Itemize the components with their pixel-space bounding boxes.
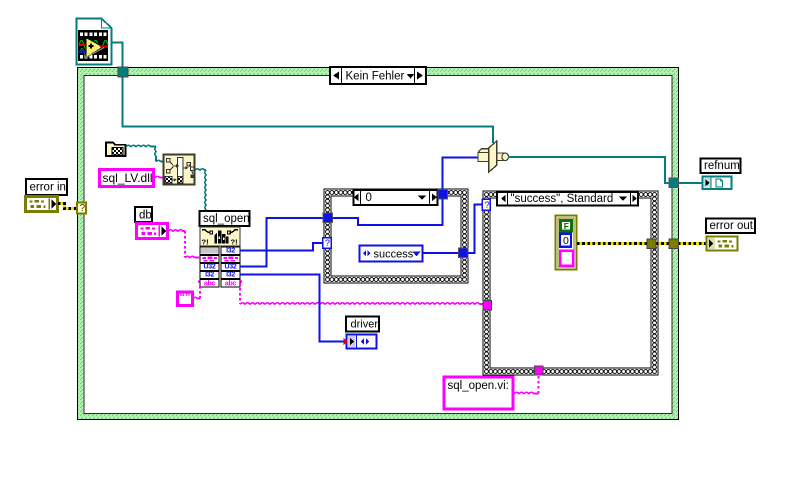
label "driver"	[346, 317, 379, 332]
Call Library Function node "sql_open" header	[200, 227, 240, 247]
control: error in cluster (olive)	[26, 197, 58, 212]
svg-text:?: ?	[80, 203, 86, 214]
case selector label "success", Standard	[497, 192, 638, 206]
svg-text:error out: error out	[710, 220, 754, 232]
svg-text:?!: ?!	[231, 238, 238, 247]
terminal: case 1 selector [?]	[323, 238, 332, 250]
wire: source string (pink) CLN abc out to case 2 tunnel	[240, 283, 483, 304]
svg-text:0: 0	[366, 192, 372, 204]
svg-text:0: 0	[563, 235, 569, 247]
svg-text:db: db	[139, 210, 152, 222]
case structure 2 ("success", Standard), ring-pattern border	[483, 191, 658, 375]
string constant "sql_LV.dll"	[100, 170, 154, 187]
svg-text:U32: U32	[204, 264, 216, 271]
tunnel: blue top-right tunnel of case 1	[438, 190, 448, 200]
coercion mark (red) on driver input	[344, 338, 349, 345]
tunnel: teal refnum tunnel on outer right border	[669, 178, 679, 188]
wire: path (teal wavy) Build Path down to sql_open CLN	[195, 169, 206, 170]
wire: success ring to case1 right tunnel	[423, 252, 459, 254]
tunnel: olive tunnel on outer border	[669, 239, 679, 249]
tunnel: blue right tunnel of case 1	[459, 248, 469, 258]
wire: empty string to CLN abc left	[193, 283, 200, 299]
wire: I32 return value to case 1 selector	[240, 243, 322, 251]
string constant "sql_open.vi:"	[444, 377, 513, 409]
tunnel: pink tunnel on case 2 left border	[483, 301, 492, 311]
indicator: error out (olive cluster)	[707, 237, 738, 251]
CLN terminal rows	[199, 247, 242, 288]
wire: error in to case selector ? (yellow/black dashed)	[58, 204, 78, 209]
case structure 1 (numeric, "0"), ring-pattern border	[324, 189, 468, 283]
function: Type Cast (funnel)	[478, 141, 509, 172]
wire: U32 out to case 1 left tunnel	[240, 218, 323, 267]
svg-text:Kein Fehler: Kein Fehler	[346, 71, 405, 83]
wire: sql_open.vi: to case 2 bottom tunnel (pink)	[514, 375, 539, 394]
svg-text:error in: error in	[30, 182, 66, 194]
svg-text:?: ?	[484, 200, 489, 211]
svg-text:“”: “”	[180, 292, 191, 304]
svg-text:sql_LV.dll: sql_LV.dll	[103, 171, 153, 185]
svg-text:success: success	[374, 249, 414, 261]
control: db (pink string/cluster control)	[137, 224, 168, 239]
indicator: driver (ring/enum, blue)	[347, 335, 377, 349]
svg-text:sql_open: sql_open	[203, 213, 250, 225]
wire: path (teal wavy) folder to Build Path	[126, 145, 156, 146]
indicator: refnum (teal)	[703, 177, 732, 190]
string constant "" (empty)	[178, 292, 193, 306]
svg-text:I32: I32	[226, 272, 235, 279]
wire: case 1 top-right tunnel up to Type Cast	[443, 158, 479, 190]
svg-text:U32: U32	[225, 264, 237, 271]
terminal: case 2 selector [?]	[482, 199, 490, 211]
static VI reference (document with LabVIEW icon)	[77, 19, 112, 65]
svg-text:driver: driver	[351, 319, 379, 331]
wire: inside case 1, left tunnel to top-right tunnel	[333, 199, 443, 225]
function: Build Path	[164, 155, 195, 185]
wire: string (pink wavy) sql_LV.dll to Build Path	[155, 176, 163, 177]
tunnel: pink tunnel on case 2 bottom border	[535, 366, 544, 375]
label "error in"	[26, 179, 67, 195]
svg-text:abc: abc	[204, 281, 216, 288]
wire: error cluster to error out (yellow/black dashed)	[577, 242, 706, 245]
wire: I32 out to driver indicator	[240, 275, 344, 342]
path constant (folder icon)	[106, 143, 126, 157]
terminal: case selector [?] on outer border	[77, 203, 86, 215]
label "sql_open"	[200, 211, 250, 226]
wire: db string (pink) to CLN row2	[168, 230, 200, 258]
wire: refnum out of Type Cast to right tunnel and refnum indicator	[508, 157, 669, 183]
case selector label "0"	[354, 190, 438, 205]
svg-text:?: ?	[325, 238, 330, 249]
wire: case1 right tunnel to case 2 selector ?	[468, 205, 482, 254]
tunnel: teal refnum tunnel on top border	[118, 67, 128, 77]
case structure "Kein Fehler" (outer error case), green hatched border	[78, 68, 679, 420]
svg-text:I32: I32	[226, 248, 235, 255]
svg-text:refnum: refnum	[704, 160, 740, 172]
svg-text:F: F	[564, 221, 569, 231]
svg-text:"success", Standard: "success", Standard	[511, 193, 614, 205]
svg-text:I32: I32	[205, 272, 214, 279]
svg-text:?!: ?!	[202, 238, 209, 247]
svg-text:abc: abc	[225, 281, 237, 288]
case selector label "Kein Fehler"	[330, 67, 426, 84]
wire: VI refnum (teal) from icon to tunnel to Type Cast	[112, 43, 123, 69]
label "error out"	[706, 219, 755, 234]
ring constant "success"	[360, 246, 423, 262]
constant: error cluster (status F, code 0, source "")	[556, 216, 577, 270]
label "db"	[135, 207, 152, 222]
tunnel: olive tunnel on case 2 right border	[647, 239, 656, 249]
tunnel: blue left tunnel of case 1	[323, 213, 333, 223]
svg-text:sql_open.vi:: sql_open.vi:	[448, 380, 509, 392]
label "refnum"	[701, 159, 741, 174]
